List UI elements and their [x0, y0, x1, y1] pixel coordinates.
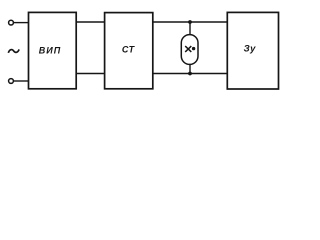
- svg-text:ВИП: ВИП: [39, 45, 61, 55]
- wire: [153, 73, 228, 75]
- wire: [153, 21, 228, 23]
- wire: [14, 80, 29, 82]
- svg-text:СТ: СТ: [122, 44, 136, 54]
- block ZU (charging device): [227, 12, 278, 89]
- svg-text:Зу: Зу: [244, 43, 257, 54]
- block VIP (rectifier unit): [29, 12, 77, 88]
- junction node bottom: [188, 72, 192, 76]
- block ST (stabilizer): [105, 13, 153, 89]
- terminal X2 (bottom input): [9, 79, 14, 84]
- lamp dot mark: [192, 47, 195, 50]
- terminal X1 (top input): [9, 20, 14, 25]
- wire: [14, 22, 29, 24]
- wire (lamp bottom lead): [189, 64, 191, 74]
- lamp cross mark: [185, 46, 191, 52]
- ac source symbol ~: [8, 49, 19, 52]
- wire (lamp top lead): [189, 22, 191, 35]
- lamp HL (gas-discharge indicator): [181, 35, 198, 65]
- wire: [76, 73, 104, 75]
- wire: [76, 21, 104, 23]
- junction node top: [188, 20, 192, 24]
